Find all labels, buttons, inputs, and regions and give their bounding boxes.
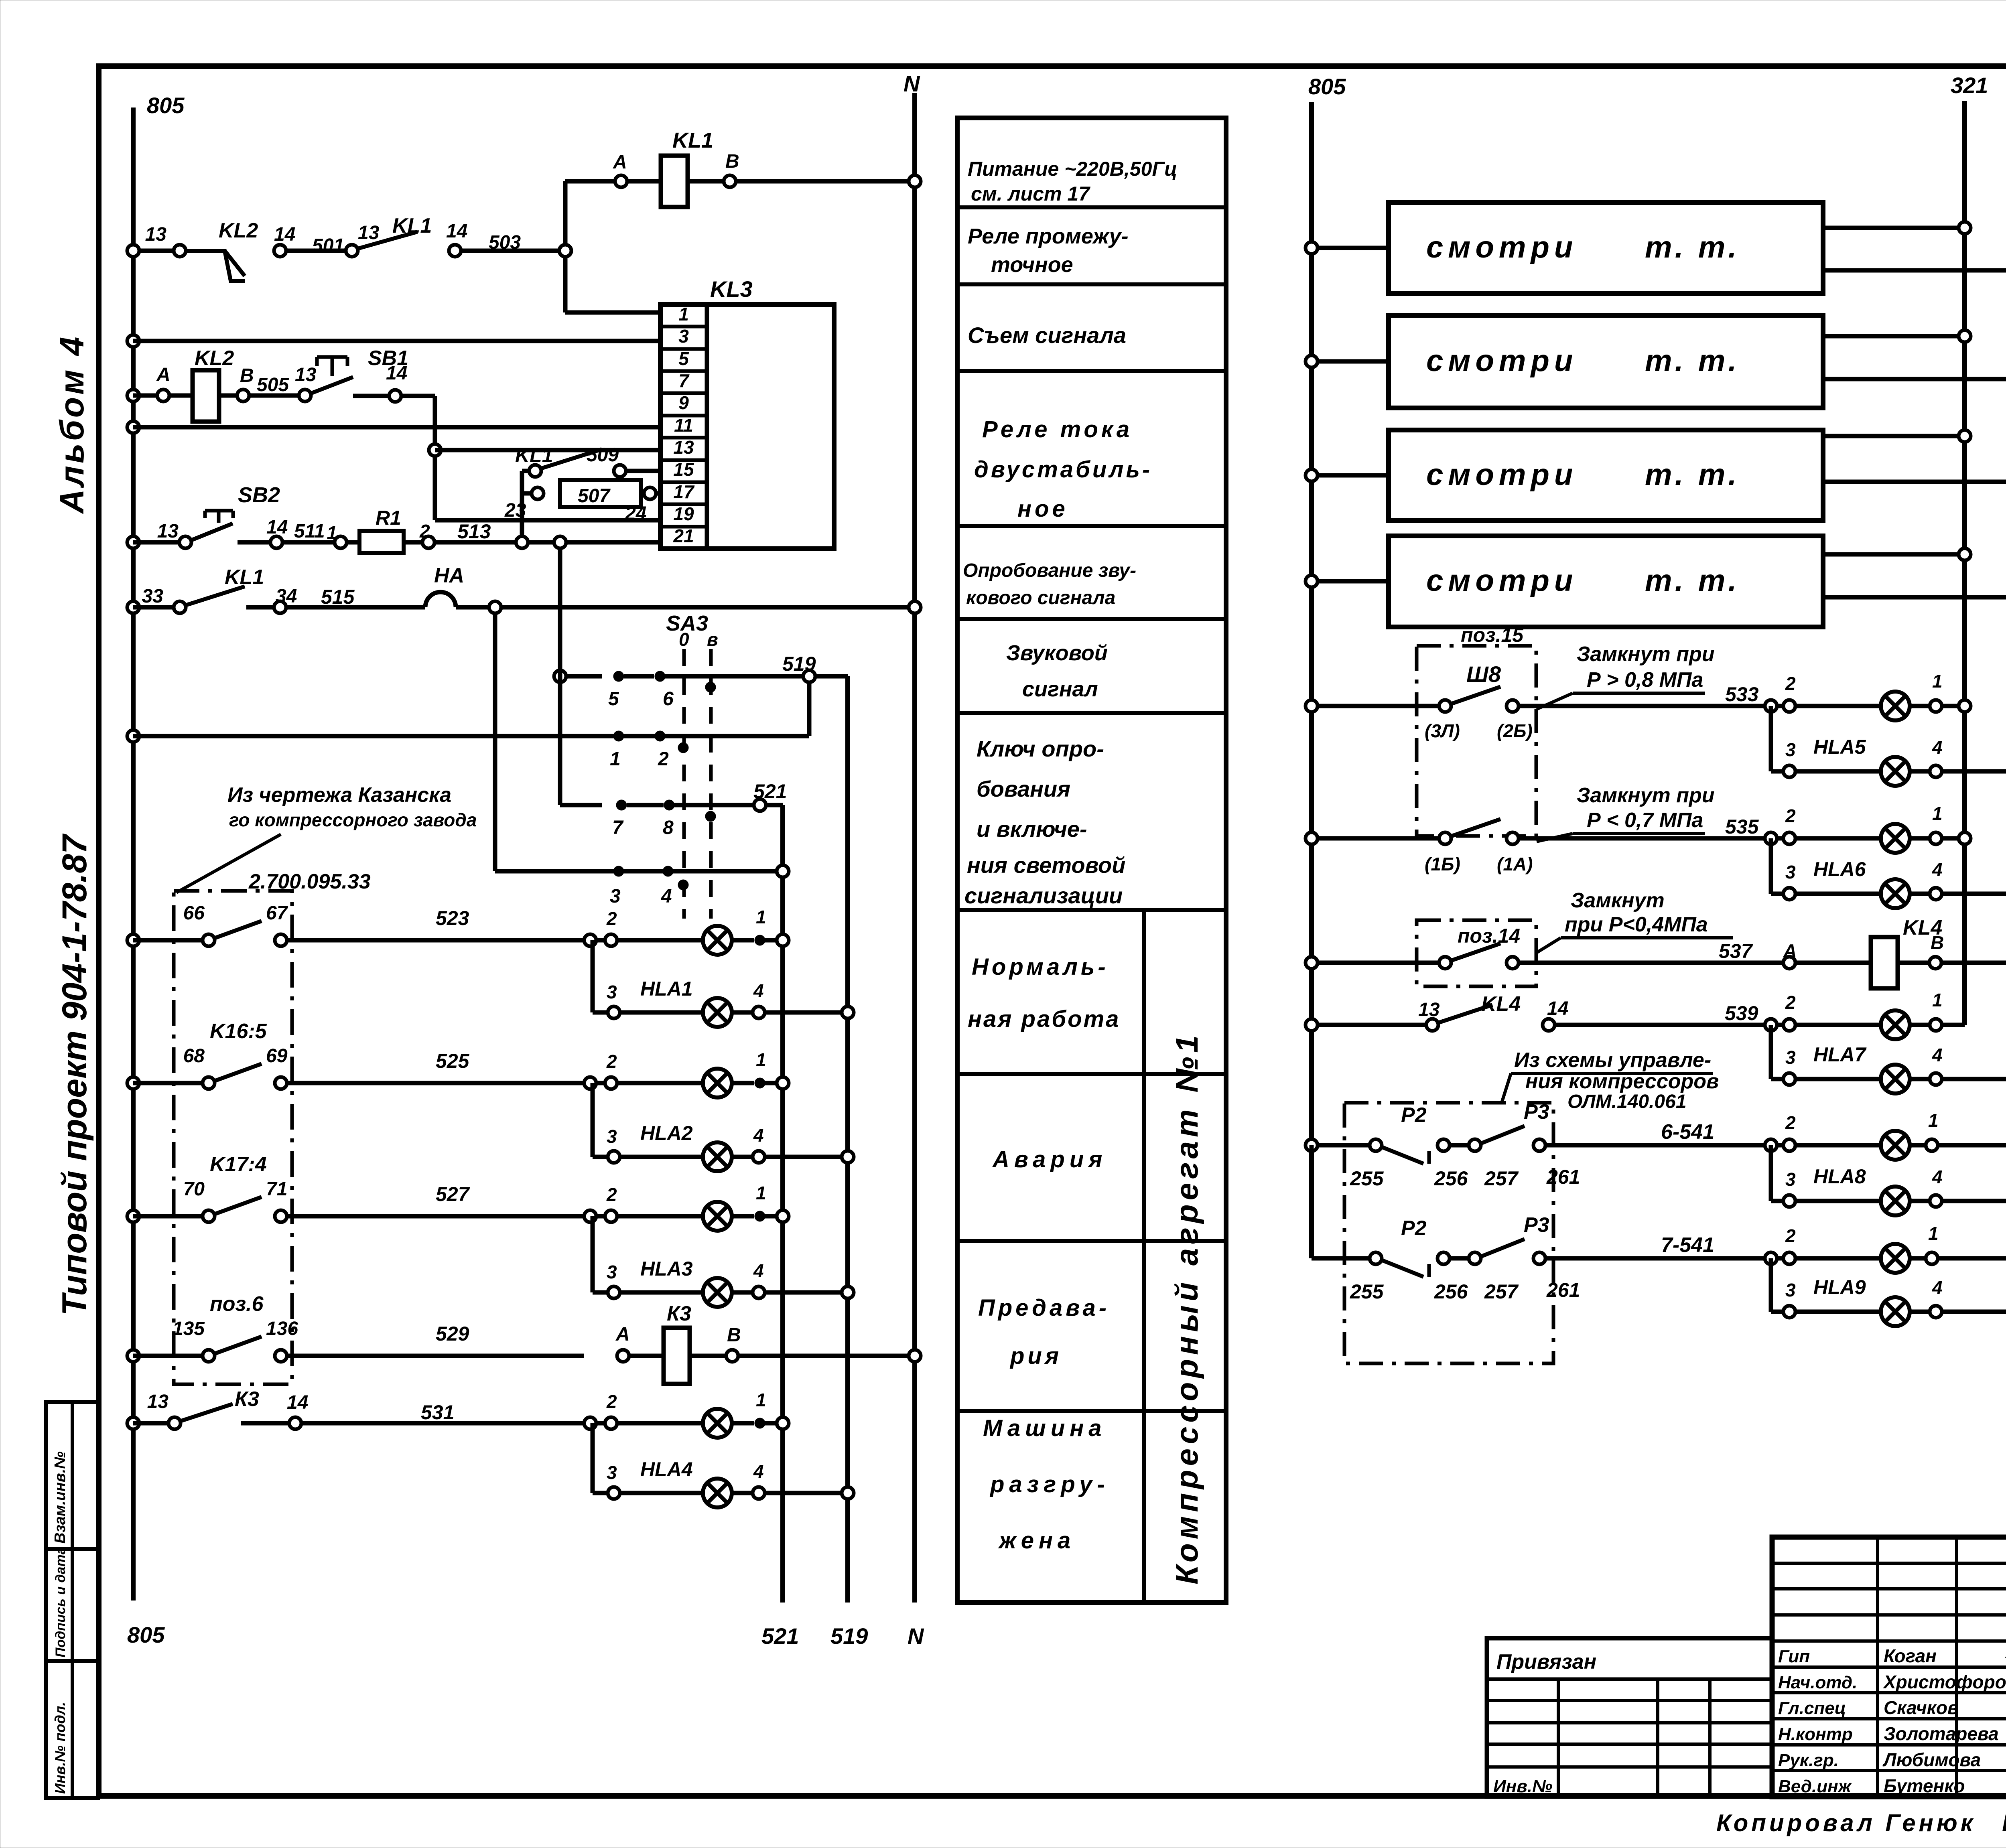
svg-text:69: 69: [266, 1045, 288, 1067]
svg-text:1: 1: [1932, 990, 1943, 1010]
contact поз.6 135-136 row 529: [127, 1292, 584, 1362]
svg-text:Инв.№ подл.: Инв.№ подл.: [52, 1702, 68, 1794]
svg-text:двустабиль-: двустабиль-: [974, 456, 1152, 483]
svg-text:535: 535: [1725, 815, 1759, 838]
indicator lamp row 527: [584, 1183, 789, 1231]
terminal block KL3: [660, 276, 834, 549]
block смотри т.т. #3: [1306, 430, 2006, 521]
svg-text:A: A: [156, 364, 171, 385]
svg-text:256: 256: [1434, 1280, 1468, 1303]
svg-text:Нач.отд.: Нач.отд.: [1778, 1673, 1857, 1692]
table cell text Реле промежуточное: [968, 224, 1129, 277]
svg-text:Привязан: Привязан: [1496, 1650, 1596, 1674]
svg-text:точное: точное: [991, 253, 1073, 277]
svg-text:2.700.095.33: 2.700.095.33: [248, 870, 371, 893]
svg-text:7: 7: [678, 370, 690, 391]
label 805 top left: [147, 93, 185, 118]
table cell text Съем сигнала: [968, 323, 1126, 348]
svg-text:2: 2: [606, 1051, 617, 1072]
wire vertical 2017 link rows 1-2 to 5-6: [807, 682, 812, 736]
svg-text:135: 135: [173, 1318, 205, 1339]
svg-text:511: 511: [294, 521, 325, 542]
svg-text:255: 255: [1350, 1167, 1384, 1190]
svg-text:Рук.гр.: Рук.гр.: [1778, 1751, 1839, 1770]
svg-text:B: B: [725, 151, 739, 172]
svg-text:Христофоров: Христофоров: [1882, 1672, 2006, 1692]
svg-text:3: 3: [607, 1462, 617, 1483]
indicator lamp HLA5 sub-row: [1771, 706, 2006, 786]
svg-text:сигнализации: сигнализации: [964, 883, 1123, 908]
svg-text:70: 70: [183, 1179, 205, 1200]
svg-text:1: 1: [1928, 1223, 1939, 1244]
contact K16:5 68-69 row 525: [127, 1020, 584, 1089]
svg-text:кового сигнала: кового сигнала: [966, 587, 1115, 609]
svg-text:разгру-: разгру-: [989, 1471, 1110, 1497]
svg-text:KL3: KL3: [710, 276, 753, 302]
svg-text:KL1: KL1: [392, 214, 432, 237]
signature rows text: [1778, 1645, 2006, 1796]
svg-text:13: 13: [147, 1391, 169, 1412]
svg-text:136: 136: [266, 1318, 298, 1339]
svg-text:257: 257: [1484, 1167, 1519, 1190]
svg-text:71: 71: [266, 1179, 287, 1200]
svg-text:ное: ное: [1017, 496, 1068, 522]
svg-text:21: 21: [673, 525, 694, 546]
svg-text:Реле тока: Реле тока: [982, 416, 1133, 442]
indicator lamp HLA6 sub-row: [1771, 838, 2006, 908]
svg-text:66: 66: [183, 903, 205, 924]
svg-text:501: 501: [312, 235, 344, 256]
svg-text:Съем сигнала: Съем сигнала: [968, 323, 1126, 348]
svg-text:Из чертежа Казанска: Из чертежа Казанска: [227, 783, 451, 807]
bus 321 vertical: [1962, 101, 1967, 1025]
svg-text:и включе-: и включе-: [977, 816, 1087, 842]
svg-text:3: 3: [610, 886, 621, 907]
svg-text:1: 1: [678, 304, 689, 325]
bus 805 right vertical: [1309, 102, 1314, 1258]
svg-text:поз.15: поз.15: [1461, 624, 1524, 646]
table cell text Авария: [992, 1146, 1107, 1172]
svg-text:3: 3: [1785, 1047, 1796, 1068]
svg-text:24: 24: [625, 503, 646, 524]
svg-text:1: 1: [1928, 1110, 1939, 1131]
svg-text:2: 2: [1785, 1225, 1796, 1246]
svg-text:Р2: Р2: [1401, 1104, 1427, 1127]
svg-text:4: 4: [1932, 1166, 1943, 1187]
svg-text:14: 14: [274, 224, 295, 245]
svg-text:Р < 0,7 МПа: Р < 0,7 МПа: [1587, 809, 1703, 832]
svg-text:Подпись и дата: Подпись и дата: [53, 1547, 68, 1657]
svg-text:68: 68: [183, 1045, 205, 1067]
svg-text:Гл.спец: Гл.спец: [1778, 1698, 1846, 1718]
wire row to KL3 pin 3: [127, 335, 660, 347]
svg-text:2: 2: [1785, 805, 1796, 826]
svg-text:ния световой: ния световой: [967, 852, 1125, 878]
svg-text:Типовой проект 904-1-78.87: Типовой проект 904-1-78.87: [55, 833, 94, 1316]
svg-text:507: 507: [578, 485, 611, 507]
svg-text:A: A: [613, 152, 627, 173]
indicator lamp HLA9 sub-row: [1771, 1201, 2006, 1326]
svg-text:Замкнут при: Замкнут при: [1577, 643, 1714, 666]
svg-text:14: 14: [386, 363, 407, 384]
table cell text Опробование звукового сигнала: [963, 560, 1136, 609]
svg-text:смотри: смотри: [1426, 564, 1578, 598]
svg-text:Замкнут: Замкнут: [1571, 889, 1665, 912]
svg-text:KL4: KL4: [1481, 992, 1521, 1016]
table cell text Ключ опробования и включения световой сигнализации: [964, 736, 1125, 908]
bus 805 left vertical: [131, 108, 136, 1601]
svg-text:255: 255: [1350, 1280, 1384, 1303]
contact K3 13-14 row 531: [127, 1388, 584, 1429]
svg-text:Машина: Машина: [983, 1415, 1107, 1441]
svg-text:0: 0: [679, 629, 689, 650]
wire row 501-503 (KL2/KL1 contacts): [127, 245, 565, 257]
svg-text:HLA2: HLA2: [640, 1122, 693, 1144]
svg-text:Предава-: Предава-: [978, 1295, 1110, 1321]
svg-text:8: 8: [663, 817, 674, 838]
svg-text:9: 9: [678, 392, 689, 413]
svg-text:N: N: [908, 1623, 924, 1649]
contact KL4 13-14 row 539: [1306, 992, 1765, 1031]
svg-text:2: 2: [1785, 673, 1796, 694]
svg-text:Питание ~220В,50Гц: Питание ~220В,50Гц: [968, 158, 1177, 180]
contact поз.14 row 537 and relay coil KL4: [1306, 916, 2006, 988]
svg-text:67: 67: [266, 903, 288, 924]
svg-text:К3: К3: [667, 1302, 691, 1325]
contact 66-67 row 523: [127, 903, 584, 946]
svg-text:1: 1: [610, 749, 621, 770]
indicator lamp HLA8 sub-row: [1771, 1145, 2006, 1215]
svg-text:К3: К3: [235, 1388, 259, 1411]
svg-text:Бутенко: Бутенко: [1884, 1775, 1965, 1796]
svg-text:т. т.: т. т.: [1645, 458, 1740, 492]
svg-text:HLA5: HLA5: [1813, 736, 1866, 758]
svg-text:13: 13: [157, 521, 179, 542]
svg-text:521: 521: [753, 780, 787, 803]
pressure switch box Ш8 поз.15: [1417, 624, 1536, 836]
svg-text:Авария: Авария: [992, 1146, 1107, 1172]
wire row SA3 7-8 to 521: [560, 780, 787, 838]
svg-text:3: 3: [1785, 862, 1796, 882]
svg-text:рия: рия: [1009, 1343, 1062, 1369]
svg-text:13: 13: [295, 364, 317, 385]
svg-text:3: 3: [607, 1126, 617, 1147]
svg-text:Гип: Гип: [1778, 1647, 1810, 1666]
svg-text:34: 34: [276, 586, 297, 607]
svg-text:805: 805: [147, 93, 185, 118]
svg-text:4: 4: [661, 886, 672, 907]
svg-text:13: 13: [358, 222, 380, 243]
contact KL2 13-14 (row 501): [145, 219, 344, 281]
signature table grid: [1772, 1537, 2006, 1797]
svg-text:Замкнут при: Замкнут при: [1577, 784, 1714, 807]
svg-text:HLA4: HLA4: [640, 1458, 693, 1481]
indicator lamp HLA4 sub-row: [593, 1423, 854, 1507]
wire into KL3 pin 19: [435, 456, 660, 520]
svg-text:смотри: смотри: [1426, 458, 1578, 492]
svg-text:Вед.инж: Вед.инж: [1778, 1777, 1852, 1796]
svg-text:4: 4: [753, 1461, 764, 1482]
svg-text:HA: HA: [434, 564, 464, 587]
svg-text:13: 13: [1418, 999, 1440, 1020]
svg-text:519: 519: [782, 653, 816, 675]
svg-text:6-541: 6-541: [1661, 1120, 1714, 1144]
wire row SA3 1-2: [127, 730, 809, 770]
svg-text:2: 2: [419, 521, 430, 542]
svg-text:14: 14: [446, 221, 467, 242]
pressure switch box поз.14: [1417, 920, 1536, 986]
svg-text:(1Б): (1Б): [1425, 854, 1460, 874]
svg-text:Ключ опро-: Ключ опро-: [977, 736, 1104, 761]
svg-text:503: 503: [489, 232, 521, 253]
svg-text:3: 3: [678, 326, 689, 347]
label 805 top right half: [1308, 74, 1346, 99]
table cell text Нормальная работа: [968, 954, 1120, 1032]
svg-text:533: 533: [1725, 683, 1759, 706]
bottom caption Копировал Генюк Кальку сверил Бутенко формат А2: [1716, 1809, 2006, 1836]
svg-text:1: 1: [756, 1049, 766, 1070]
svg-text:Реле промежу-: Реле промежу-: [968, 224, 1129, 248]
svg-text:Нормаль-: Нормаль-: [972, 954, 1109, 980]
svg-text:1: 1: [756, 1390, 766, 1410]
svg-text:519: 519: [830, 1623, 868, 1649]
svg-text:SB2: SB2: [238, 483, 280, 507]
svg-text:261: 261: [1546, 1166, 1580, 1188]
svg-text:4: 4: [1932, 1277, 1943, 1298]
wire vertical link 513 to row 509: [520, 471, 524, 542]
svg-text:17: 17: [673, 481, 695, 502]
dash-dot box of remote contacts: [174, 891, 292, 1384]
attachment box Привязан: [1487, 1638, 1772, 1797]
svg-text:15: 15: [673, 459, 694, 480]
lamp row 7-541: [1765, 1223, 2006, 1273]
svg-text:4: 4: [1932, 1045, 1943, 1065]
table vertical text Компрессорный агрегат №1: [1169, 1031, 1204, 1584]
svg-text:2: 2: [606, 1184, 617, 1205]
block смотри т.т. #2: [1306, 315, 2006, 408]
callout text Из чертежа Казанского завода: [177, 783, 477, 893]
svg-text:4: 4: [753, 980, 764, 1001]
svg-text:KL1: KL1: [515, 444, 553, 467]
svg-text:1: 1: [1932, 803, 1943, 824]
svg-text:т. т.: т. т.: [1645, 564, 1740, 598]
svg-text:KL2: KL2: [219, 219, 258, 242]
svg-text:257: 257: [1484, 1280, 1519, 1303]
contact KL1 13-14 (row 503): [346, 214, 521, 257]
callout Замкнут при Р меньше 0.4 МПа: [1537, 889, 1733, 953]
svg-text:KL1: KL1: [225, 566, 264, 589]
svg-text:7-541: 7-541: [1661, 1233, 1714, 1257]
table cell text Машина разгружена: [983, 1415, 1110, 1554]
svg-text:ОЛМ.140.061: ОЛМ.140.061: [1567, 1091, 1687, 1112]
svg-text:515: 515: [321, 586, 355, 608]
svg-text:2: 2: [1785, 1112, 1796, 1133]
svg-text:Звуковой: Звуковой: [1006, 641, 1108, 665]
callout Замкнут при Р больше 0.8 МПа: [1537, 643, 1714, 709]
svg-text:521: 521: [761, 1623, 799, 1649]
svg-text:13: 13: [673, 437, 694, 458]
svg-text:1: 1: [327, 522, 337, 543]
contact KL1 row 509 to KL3 pin 15: [515, 444, 660, 477]
svg-text:т. т.: т. т.: [1645, 344, 1740, 378]
svg-text:в: в: [707, 629, 718, 650]
table cell text Питание 220В 50Гц: [968, 158, 1177, 205]
indicator lamp row 533: [1765, 671, 1971, 720]
svg-text:K16:5: K16:5: [210, 1020, 267, 1043]
svg-text:(2Б): (2Б): [1497, 720, 1533, 741]
indicator lamp row 525: [584, 1049, 789, 1097]
svg-text:14: 14: [1547, 998, 1568, 1019]
indicator lamp row 535: [1765, 803, 1971, 853]
svg-text:Р3: Р3: [1524, 1213, 1549, 1237]
svg-text:Копировал Генюк: Копировал Генюк: [1716, 1809, 1976, 1836]
svg-text:HLA9: HLA9: [1813, 1276, 1866, 1298]
svg-text:14: 14: [287, 1392, 308, 1413]
svg-text:4: 4: [1932, 859, 1943, 880]
svg-text:ная работа: ная работа: [968, 1006, 1120, 1032]
svg-text:256: 256: [1434, 1167, 1468, 1190]
terminal box 507 row 23-24 to KL3 pin 17: [504, 480, 660, 524]
resistor row SB2-R1 wire 511-513: [127, 483, 660, 553]
relay coil KL2 row 505 with SB1 button: [127, 347, 435, 450]
svg-text:HLA8: HLA8: [1813, 1165, 1866, 1188]
table cell text Предавария: [978, 1295, 1110, 1369]
svg-text:2: 2: [1785, 992, 1796, 1013]
svg-text:3: 3: [1785, 1169, 1796, 1190]
svg-text:7: 7: [612, 817, 624, 838]
svg-text:509: 509: [587, 444, 619, 466]
svg-text:см. лист 17: см. лист 17: [971, 183, 1090, 205]
svg-text:2: 2: [606, 1391, 617, 1412]
svg-text:1: 1: [756, 1183, 766, 1203]
label 805 bottom left: [127, 1622, 165, 1647]
svg-text:поз.6: поз.6: [210, 1292, 264, 1316]
callout Замкнут при Р меньше 0.7 МПа: [1537, 784, 1714, 842]
svg-text:6: 6: [663, 688, 674, 710]
callout Из схемы управления компресоров ОЛМ.140.061: [1502, 1049, 1719, 1112]
title block frame: [1772, 1537, 2006, 1797]
wire row SA3 5-6 to 519: [554, 653, 848, 710]
svg-text:B: B: [1931, 932, 1944, 953]
svg-text:3: 3: [1785, 1280, 1796, 1300]
bus 521 left vertical: [780, 805, 785, 1603]
svg-text:Золотарева: Золотарева: [1884, 1723, 1999, 1744]
svg-text:Компрессорный агрегат №1: Компрессорный агрегат №1: [1169, 1031, 1204, 1584]
svg-text:(1А): (1А): [1497, 854, 1533, 874]
svg-text:R1: R1: [376, 507, 401, 529]
svg-text:5: 5: [678, 348, 689, 369]
svg-text:Кальку сверил Бутенко: Кальку сверил Бутенко: [2002, 1809, 2006, 1836]
svg-text:HLA1: HLA1: [640, 978, 693, 1000]
svg-text:513: 513: [457, 520, 491, 543]
svg-text:19: 19: [673, 503, 694, 524]
wire into KL3 pin 13: [429, 444, 660, 456]
lamp row 6-541: [1765, 1110, 2006, 1160]
contact Ш8 upper (3Л)-(2Б) row 533: [1306, 683, 1765, 741]
table cell text Звуковой сигнал: [1006, 641, 1108, 701]
label 321: [1951, 73, 1988, 98]
wire row SA3 3-4: [495, 613, 789, 907]
svg-text:поз.14: поз.14: [1458, 925, 1520, 947]
svg-text:539: 539: [1725, 1002, 1758, 1024]
svg-text:14: 14: [266, 517, 288, 538]
bus 519 left vertical: [845, 676, 850, 1603]
annotation table column (middle): [957, 118, 1226, 1603]
svg-text:KL1: KL1: [672, 128, 713, 152]
svg-text:N: N: [904, 71, 920, 96]
svg-text:3: 3: [607, 982, 617, 1002]
svg-text:A: A: [615, 1324, 630, 1345]
svg-text:Любимова: Любимова: [1882, 1749, 1981, 1770]
svg-text:11: 11: [674, 415, 693, 436]
wire node junction 503 to KL1 coil: [559, 181, 660, 312]
left margin stamp boxes: [46, 1402, 98, 1798]
indicator lamp HLA2 sub-row: [593, 1083, 854, 1171]
svg-text:2: 2: [606, 908, 617, 929]
svg-text:33: 33: [142, 586, 164, 607]
svg-text:смотри: смотри: [1426, 344, 1578, 378]
svg-text:321: 321: [1951, 73, 1988, 98]
svg-text:Н.контр: Н.контр: [1778, 1724, 1853, 1744]
contact Ш8 lower (1Б)-(1А) row 535: [1306, 815, 1765, 874]
contact K17:4 70-71 row 527: [127, 1153, 584, 1222]
svg-text:4: 4: [1932, 737, 1943, 758]
svg-text:13: 13: [145, 224, 167, 245]
svg-text:805: 805: [1308, 74, 1346, 99]
svg-text:Коган: Коган: [1884, 1645, 1937, 1666]
svg-text:805: 805: [127, 1622, 165, 1647]
svg-text:537: 537: [1719, 940, 1753, 962]
svg-text:HLA7: HLA7: [1813, 1043, 1867, 1066]
labels 521 519 N bottom: [761, 1623, 924, 1649]
svg-text:Из схемы управле-: Из схемы управле-: [1514, 1049, 1711, 1072]
svg-text:261: 261: [1546, 1279, 1580, 1301]
svg-text:(3Л): (3Л): [1425, 720, 1460, 741]
svg-text:531: 531: [421, 1401, 454, 1424]
svg-text:смотри: смотри: [1426, 230, 1578, 264]
svg-text:сигнал: сигнал: [1022, 677, 1098, 701]
svg-text:4: 4: [753, 1260, 764, 1281]
svg-text:Опробование зву-: Опробование зву-: [963, 560, 1136, 581]
svg-text:B: B: [240, 365, 254, 386]
svg-text:B: B: [727, 1325, 741, 1346]
indicator lamp row 531: [584, 1390, 789, 1438]
svg-text:при Р<0,4МПа: при Р<0,4МПа: [1565, 913, 1708, 936]
svg-text:го компрессорного завода: го компрессорного завода: [229, 809, 477, 830]
svg-text:1: 1: [756, 907, 766, 927]
block смотри т.т. #1: [1306, 203, 2006, 294]
svg-text:3: 3: [1785, 739, 1796, 760]
svg-text:525: 525: [436, 1050, 470, 1072]
indicator lamp HLA7 sub-row: [1771, 1025, 2006, 1093]
margin text Типовой проект 904-1-78.87: [55, 833, 94, 1316]
svg-text:жена: жена: [998, 1527, 1075, 1554]
relay coil KL1: [613, 128, 921, 207]
svg-text:3: 3: [607, 1262, 617, 1282]
lamp row 539 to bus 321 upward: [1765, 990, 1965, 1039]
svg-text:KL2: KL2: [195, 347, 234, 370]
block смотри т.т. #4: [1306, 536, 2006, 627]
svg-text:4: 4: [753, 1125, 764, 1146]
bus N left vertical: [912, 93, 917, 1603]
contact row P2 P3 6-541: [1306, 1100, 1765, 1190]
svg-text:бования: бования: [977, 776, 1070, 801]
label N top (left half): [904, 71, 920, 96]
svg-text:Инв.№: Инв.№: [1493, 1777, 1552, 1796]
bell HA row 515 with contact KL1 33-34: [127, 564, 921, 613]
margin text Альбом 4: [53, 335, 91, 514]
svg-text:HLA3: HLA3: [640, 1258, 693, 1280]
